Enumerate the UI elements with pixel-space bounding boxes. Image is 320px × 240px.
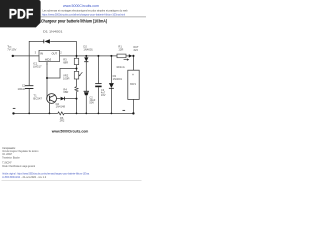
wire bottom rail [14,112,134,114]
label C3 [101,88,106,97]
trimmer wiper arrow [80,72,83,75]
label T1 [33,94,42,101]
label R6 [60,116,65,123]
current arrow [124,59,127,61]
footer rule [2,179,142,181]
svg-text:100uF: 100uF [17,87,25,91]
label D4 [56,102,66,109]
svg-text:T1 BC547: T1 BC547 [2,160,12,164]
svg-text:1N4148: 1N4148 [56,105,66,109]
node rail D2 [85,55,87,57]
wire C1 branch [28,56,30,114]
svg-text:Diode / Rectificateur usage ge: Diode / Rectificateur usage general [2,164,35,168]
svg-text:68R: 68R [63,90,68,94]
node bottom left terminal [12,112,14,114]
svg-text:LI-PDF-5000-0214 - 21-oct-2022: LI-PDF-5000-0214 - 21-oct-2022 - rev 1.2 [2,175,46,179]
svg-text:ADJ: ADJ [45,57,52,61]
trimmer VR2 box [74,71,78,79]
svg-text:12R: 12R [118,48,123,52]
node rail trimmer [76,55,78,57]
output arrow [129,54,133,57]
wire collector to D4 [56,98,76,100]
label D3 [113,74,123,81]
transistor T1 [47,94,57,104]
capacitor C1 [25,86,33,89]
svg-text:https://www.5000circuits.com/a: https://www.5000circuits.com/alims/charg… [42,13,125,17]
svg-text:1N4001: 1N4001 [113,77,123,81]
regulator IC1 box [39,50,60,61]
node output [132,55,134,57]
node bottom right terminal [132,112,134,114]
svg-text:1N4001: 1N4001 [83,47,93,51]
label D2 [83,45,93,52]
svg-text:BAT1: BAT1 [130,83,136,86]
node ADJ junction [46,77,48,79]
wire bypass diode branch [29,41,76,56]
node bottom junctions [28,113,112,115]
svg-text:BC547: BC547 [33,96,42,100]
svg-text:50V: 50V [89,100,94,104]
svg-text:103mA: 103mA [116,65,125,69]
label IC1 LM317 [33,62,42,69]
resistor R3 box [74,58,78,64]
label VR2 [63,74,69,81]
diode D2 [84,57,88,61]
minus right [123,109,126,111]
diode D3 [109,83,114,88]
wire emitter [48,103,50,113]
svg-text:www.5000Circuits.com: www.5000Circuits.com [63,4,99,8]
wire column trimmer [76,41,78,113]
PDF badge [0,0,41,27]
wire ADJ pin [46,62,48,99]
resistor R1 box [117,54,126,58]
svg-text:2R2: 2R2 [60,119,65,123]
battery BAT1 [128,70,139,99]
label R1 [118,45,123,52]
node rail D3 [110,55,112,57]
svg-text:Transistor: Bipolar: Transistor: Bipolar [2,156,19,160]
capacitor C3 [95,83,101,85]
node input terminal [12,55,14,57]
label R4 [63,88,68,95]
node trimmer junction [76,68,78,70]
svg-text:4V2: 4V2 [133,49,138,52]
label OUT [133,46,139,52]
svg-text:Chargeur pour batterie lithium: Chargeur pour batterie lithium (103mA) [41,18,107,23]
capacitor C2 [84,90,89,92]
svg-text:7V-15V: 7V-15V [7,47,16,51]
svg-text:Article original : https://www: Article original : https://www.5000circu… [2,171,89,175]
label C2 [89,95,95,104]
resistor R6 zigzag [58,112,64,115]
components list [2,146,39,168]
wire top rail output [60,55,118,57]
node input label Tcc [7,45,16,52]
svg-text:100R: 100R [63,76,69,80]
svg-text:www.5000Circuits.com: www.5000Circuits.com [51,129,89,134]
node rail C3 [97,55,99,57]
label R3 [63,58,68,65]
wire top rail input [13,55,39,57]
wire D3 branch [110,56,112,114]
svg-text:D1 1N4001: D1 1N4001 [43,29,63,33]
diode D4 [61,97,65,101]
wire D2 C2 branch [85,56,87,114]
svg-text:OUT: OUT [52,52,58,56]
svg-text:68R: 68R [63,60,68,64]
label C1 [17,84,25,92]
minus left [13,107,16,109]
header rule [3,16,146,18]
wire ADJ to trimmer [47,69,77,79]
svg-text:LM317: LM317 [33,64,42,68]
wire rail after R1 [126,55,129,57]
wire C3 branch [97,56,99,114]
wire battery branch [132,56,134,114]
svg-text:IN: IN [40,52,43,56]
svg-text:IC1 LM317: IC1 LM317 [2,152,12,156]
diode D1 [43,40,45,44]
svg-text:16V: 16V [101,93,106,97]
svg-text:+: + [132,73,134,77]
svg-text:PDF: PDF [9,5,34,21]
node D4 junction [76,98,78,100]
resistor R4 zigzag [75,87,78,92]
